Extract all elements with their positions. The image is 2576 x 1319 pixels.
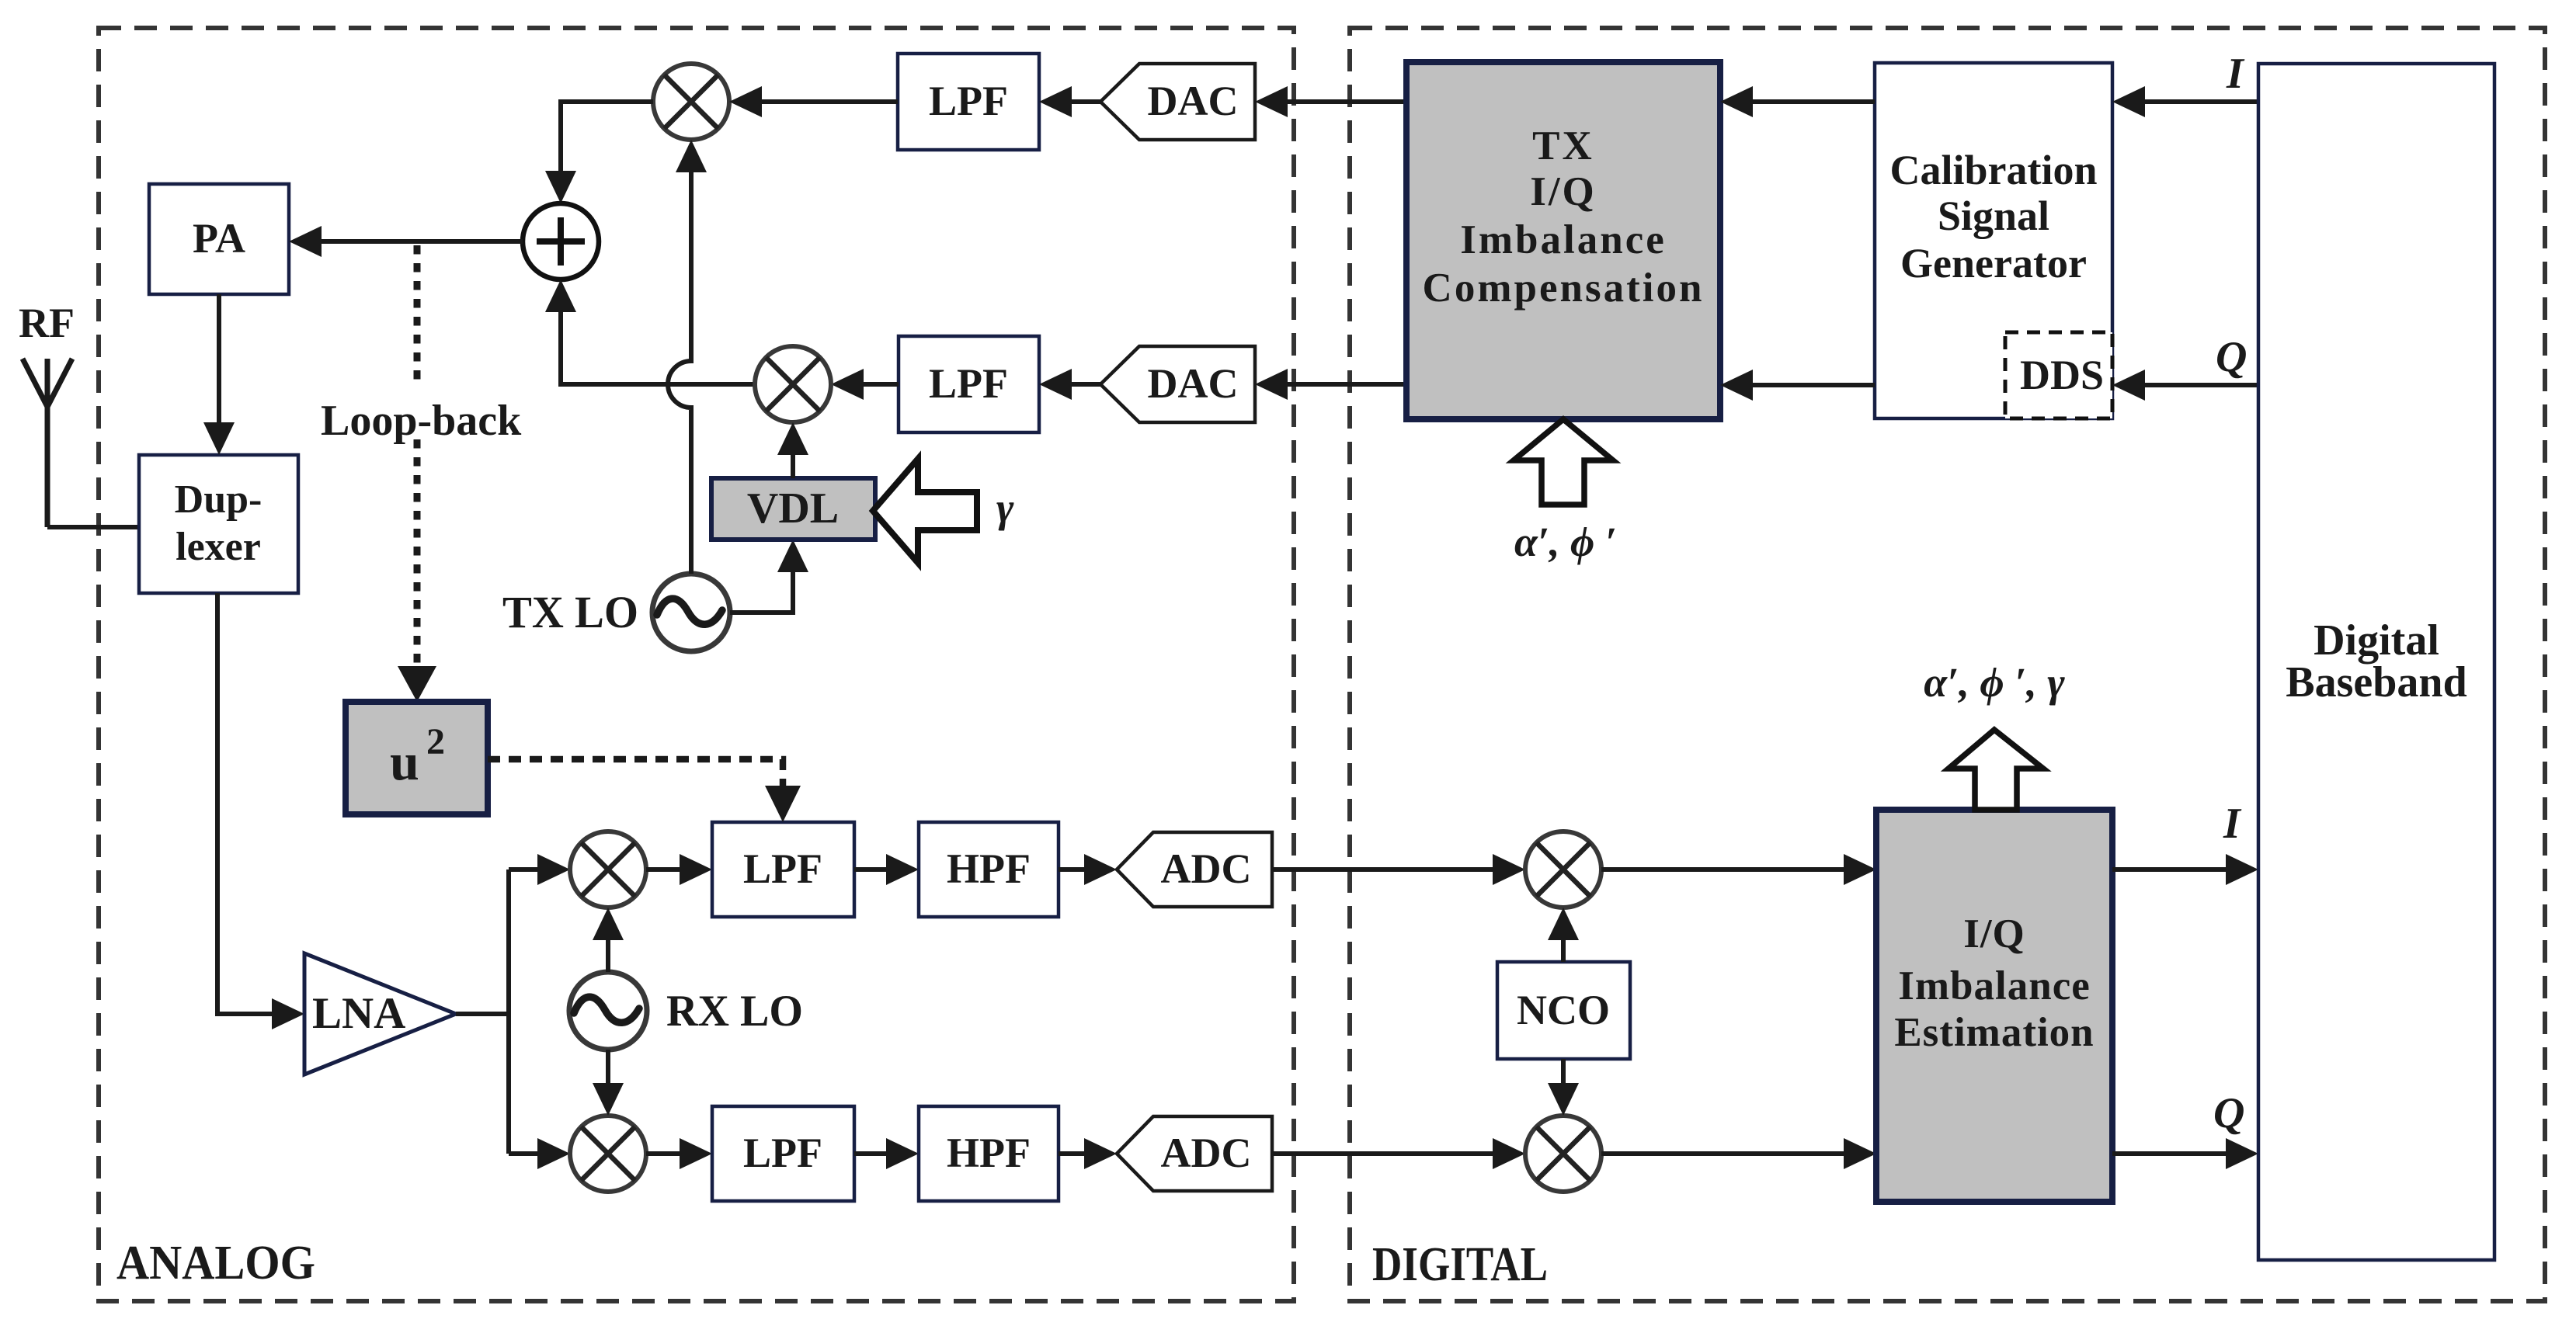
loop-back dashed wire — [321, 245, 522, 702]
mixer RX-Q — [570, 1116, 646, 1192]
svg-text:Compensation: Compensation — [1423, 266, 1705, 311]
open arrow alpha phi gamma out of IQ Estimation — [1924, 659, 2065, 810]
svg-text:PA: PA — [193, 215, 245, 262]
svg-text:Q: Q — [2216, 333, 2247, 381]
wire IQ Estimation to Digital Baseband Q — [2112, 1089, 2258, 1169]
block LPF RX-I — [712, 822, 854, 917]
svg-text:α′, ϕ ′: α′, ϕ ′ — [1514, 519, 1617, 565]
wire TX LO to VDL — [730, 540, 808, 613]
svg-text:lexer: lexer — [176, 525, 261, 569]
wire RX LO to mixer RX-Q — [593, 1050, 624, 1116]
block IQ Imbalance Estimation — [1876, 810, 2112, 1202]
wire Calibration to TXIQ Q — [1720, 370, 1875, 401]
summer — [523, 203, 599, 279]
wire duplexer to LNA — [217, 593, 304, 1029]
wire HPF to ADC RX-I — [1059, 854, 1117, 885]
svg-text:LPF: LPF — [929, 360, 1008, 407]
svg-text:RX LO: RX LO — [666, 987, 803, 1036]
svg-text:Q: Q — [2213, 1089, 2244, 1137]
svg-text:u: u — [390, 732, 419, 791]
svg-text:LPF: LPF — [929, 78, 1008, 124]
block VDL — [711, 478, 875, 540]
svg-text:Dup-: Dup- — [175, 477, 262, 522]
svg-text:DAC: DAC — [1148, 360, 1239, 407]
svg-text:Baseband: Baseband — [2286, 658, 2466, 706]
wire Digital Baseband I to Calibration — [2112, 50, 2258, 117]
block LPF TX-I — [898, 54, 1039, 150]
svg-text:Imbalance: Imbalance — [1898, 963, 2091, 1008]
wire summer to PA — [289, 226, 523, 257]
svg-text:VDL: VDL — [747, 484, 839, 533]
block DDS — [2005, 332, 2112, 418]
converter DAC I — [1100, 64, 1255, 140]
wire mixer DIG-Q to IQ Estimation — [1601, 1138, 1876, 1169]
svg-text:RF: RF — [19, 300, 75, 346]
converter DAC Q — [1100, 346, 1255, 422]
wire mixer TX-Q to summer — [545, 279, 755, 384]
wire TXIQ to DAC I — [1255, 86, 1406, 117]
block HPF RX-I — [919, 822, 1059, 917]
svg-text:HPF: HPF — [947, 1130, 1031, 1176]
wire IQ Estimation to Digital Baseband I — [2112, 800, 2258, 885]
svg-text:NCO: NCO — [1517, 987, 1610, 1033]
antenna RF — [19, 300, 75, 527]
wire DAC I to LPF — [1039, 86, 1100, 117]
wire LNA output split to RX mixers — [456, 854, 570, 1169]
svg-text:I: I — [2226, 50, 2245, 98]
mixer TX-I — [653, 64, 729, 140]
wire LPF to mixer TX-I — [729, 86, 898, 117]
wire ADC I to digital mixer — [1272, 854, 1525, 885]
block Digital Baseband — [2258, 64, 2494, 1260]
mixer TX-Q — [755, 346, 831, 422]
svg-text:LPF: LPF — [743, 845, 822, 892]
wire NCO to mixer DIG-I — [1548, 908, 1579, 962]
svg-text:I/Q: I/Q — [1963, 911, 2025, 956]
svg-text:HPF: HPF — [947, 845, 1031, 892]
svg-text:DAC: DAC — [1148, 78, 1239, 124]
amplifier LNA — [304, 953, 456, 1074]
block Calibration Signal Generator — [1875, 63, 2112, 418]
svg-text:Imbalance: Imbalance — [1460, 217, 1667, 262]
mixer RX-I — [570, 831, 646, 908]
block LPF RX-Q — [712, 1106, 854, 1201]
wire VDL to mixer TX-Q — [777, 422, 808, 478]
wire HPF to ADC RX-Q — [1059, 1138, 1117, 1169]
block HPF RX-Q — [919, 1106, 1059, 1201]
wire LPF to mixer TX-Q — [831, 369, 899, 400]
mixer DIG-I — [1525, 831, 1601, 908]
wire Calibration to TXIQ I — [1720, 86, 1875, 117]
svg-text:ADC: ADC — [1161, 845, 1252, 892]
DIGITAL label — [1372, 1238, 1548, 1291]
wire TXIQ to DAC Q — [1255, 369, 1406, 400]
wire TX LO up to mixer TX-I with hop — [668, 140, 707, 574]
DIGITAL region dashed border — [1350, 28, 2545, 1301]
svg-text:α′, ϕ ′, γ: α′, ϕ ′, γ — [1924, 659, 2065, 706]
svg-text:Estimation: Estimation — [1894, 1010, 2094, 1055]
wire mixer RX-Q to LPF — [646, 1138, 712, 1169]
oscillator RX LO — [569, 972, 803, 1050]
wire LPF to HPF RX-I — [854, 854, 919, 885]
svg-text:Loop-back: Loop-back — [321, 397, 522, 445]
wire antenna to duplexer — [47, 525, 139, 529]
wire NCO to mixer DIG-Q — [1548, 1059, 1579, 1116]
wire LPF to HPF RX-Q — [854, 1138, 919, 1169]
wire DAC Q to LPF — [1039, 369, 1100, 400]
block LPF TX-Q — [899, 336, 1039, 432]
svg-text:ADC: ADC — [1161, 1130, 1252, 1176]
oscillator TX LO — [502, 574, 730, 651]
converter ADC Q — [1117, 1116, 1272, 1191]
wire PA to duplexer — [203, 294, 235, 455]
svg-text:2: 2 — [426, 721, 445, 762]
wire mixer DIG-I to IQ Estimation — [1601, 854, 1876, 885]
svg-text:TX LO: TX LO — [502, 587, 638, 637]
svg-text:Calibration: Calibration — [1889, 147, 2097, 193]
svg-text:DIGITAL: DIGITAL — [1372, 1238, 1548, 1291]
block PA — [149, 184, 289, 294]
block u squared — [346, 702, 488, 814]
svg-text:Generator: Generator — [1900, 240, 2087, 286]
dashed wire u squared to RX LPF — [488, 759, 801, 822]
open arrow alpha phi into TXIQ — [1514, 419, 1617, 565]
svg-text:I/Q: I/Q — [1530, 169, 1597, 214]
svg-text:LNA: LNA — [312, 989, 405, 1038]
svg-text:γ: γ — [996, 484, 1014, 531]
ANALOG region dashed border — [99, 28, 1294, 1301]
block Duplexer — [139, 455, 298, 593]
svg-text:Digital: Digital — [2314, 616, 2439, 665]
converter ADC I — [1117, 832, 1272, 907]
wire RX LO to mixer RX-I — [593, 908, 624, 972]
wire Digital Baseband Q to DDS — [2112, 333, 2258, 401]
ANALOG label — [116, 1237, 315, 1289]
svg-text:TX: TX — [1532, 123, 1594, 168]
block TX IQ Imbalance Compensation — [1406, 62, 1720, 419]
block NCO — [1497, 962, 1630, 1059]
open arrow gamma into VDL — [873, 459, 1014, 563]
wire ADC Q to digital mixer — [1272, 1138, 1525, 1169]
svg-text:LPF: LPF — [743, 1130, 822, 1176]
mixer DIG-Q — [1525, 1116, 1601, 1192]
wire mixer RX-I to LPF — [646, 854, 712, 885]
svg-text:DDS: DDS — [2020, 352, 2104, 398]
wire mixer TX-I to summer — [545, 102, 653, 203]
svg-text:ANALOG: ANALOG — [116, 1237, 315, 1289]
svg-text:Signal: Signal — [1938, 193, 2049, 239]
svg-text:I: I — [2223, 800, 2242, 848]
